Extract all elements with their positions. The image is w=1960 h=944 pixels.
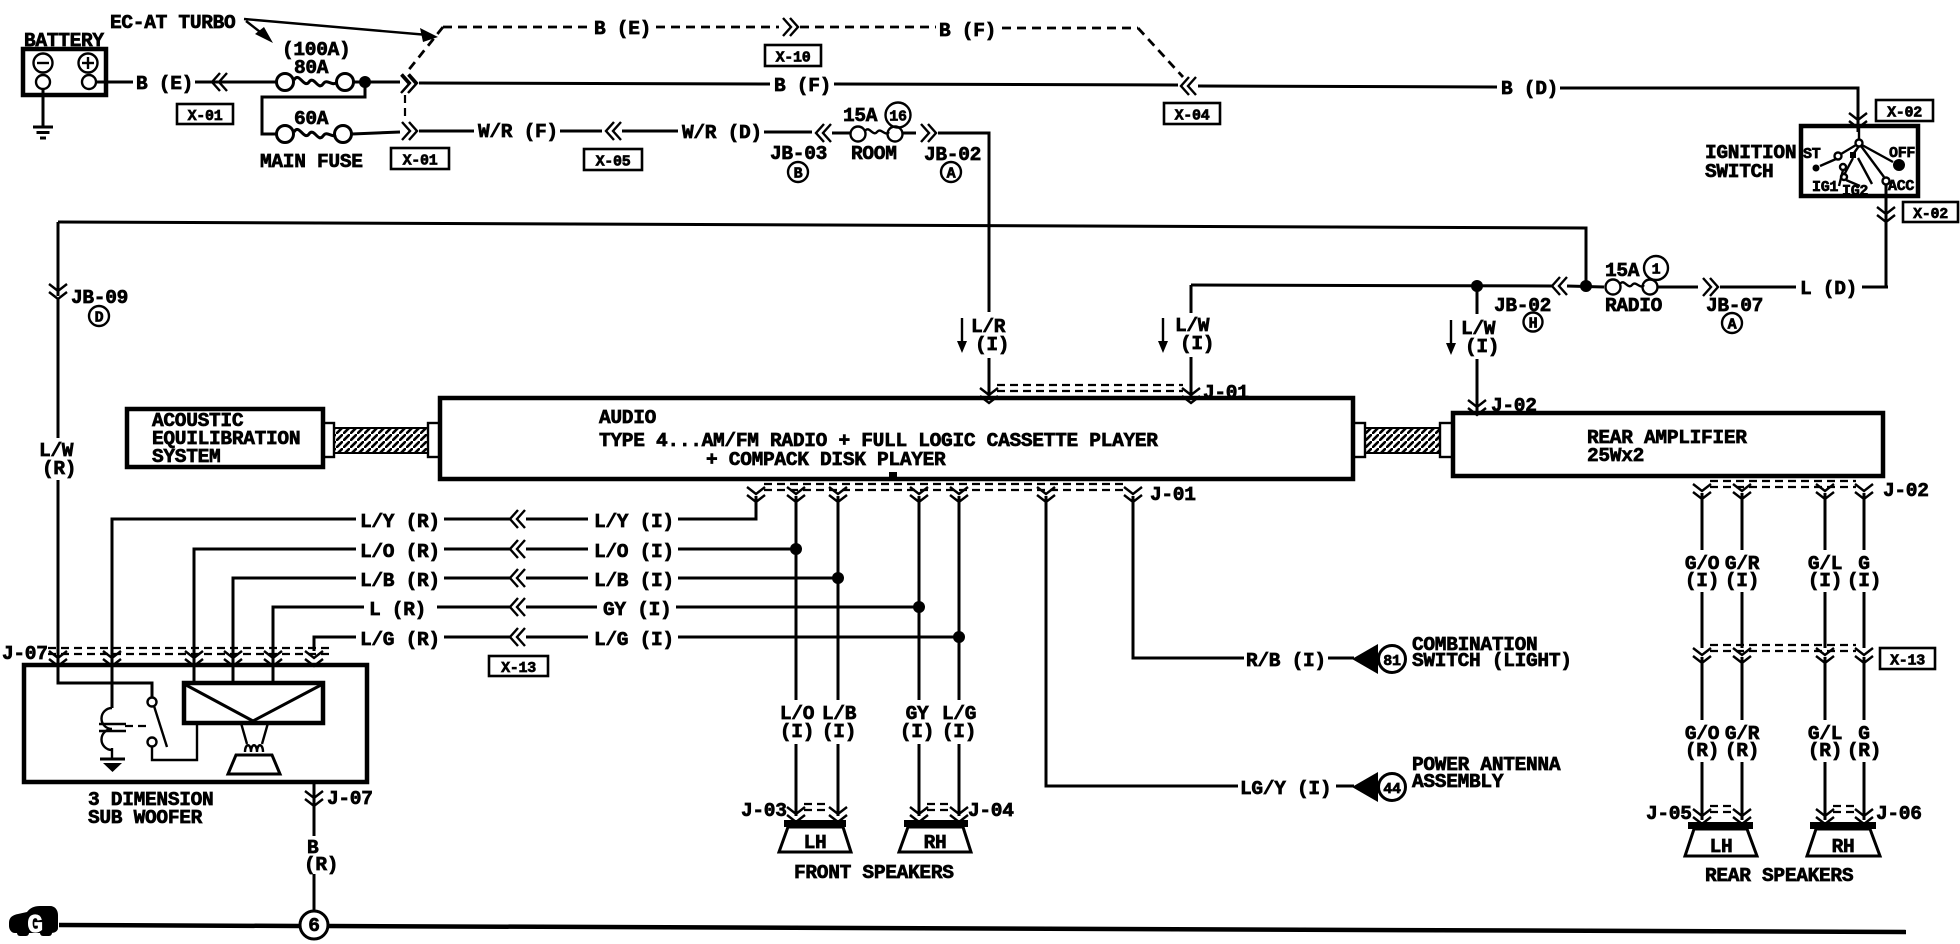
hatched harness left end bar [323,423,334,457]
dashed wire X-10 to B (F) [800,26,936,29]
connector chevron X-05 [606,122,621,140]
wire L/W (I) audio to J-01 [1190,357,1193,400]
connector chevron X-13 L/B [510,569,525,587]
svg-text:JB-02: JB-02 [1494,295,1551,317]
connector J-01 top chevron left [980,388,998,403]
wire L/W (I) rear annotation arrow [1446,320,1456,355]
svg-text:(R): (R) [1685,740,1719,762]
connector chevron X-13 L/G [510,628,525,646]
svg-text:W/R (F): W/R (F) [478,121,558,143]
wire G/R (I) [1741,493,1744,550]
wire W/R (D) to JB-03 [764,131,812,134]
connector label X-01 first [177,104,233,125]
svg-text:J-07: J-07 [327,788,373,810]
terminal circle A of JB-02 [941,162,961,183]
svg-text:(I): (I) [1847,570,1881,592]
wire G/O (R) lower [1701,762,1704,820]
svg-text:X-01: X-01 [188,108,223,125]
combination switch arrow [1352,644,1378,674]
wire B (R) from subwoofer [313,782,316,836]
svg-text:OFF: OFF [1889,145,1915,162]
svg-text:L/O (R): L/O (R) [360,541,440,563]
junction node after 80A fuse [359,76,371,88]
wire to X-01 connector [354,81,400,84]
connector J-02 bottom chevrons [1693,484,1873,499]
wire L/G (I) vertical [958,496,961,700]
wire L/R (I) to J-01 [988,358,991,400]
junction node L/O [790,543,802,555]
wire 60A to X-01 [352,132,400,134]
connector J-07 bottom chevrons [305,791,323,806]
svg-text:25Wx2: 25Wx2 [1587,445,1644,467]
wire label G/R (I) [1725,553,1760,592]
svg-text:RH: RH [924,832,947,854]
wire W/R (F) to X-05 [560,130,602,133]
svg-text:IG2: IG2 [1842,183,1868,200]
wire rear amp feed down [1476,286,1479,314]
svg-text:ROOM: ROOM [851,143,897,165]
wire R/B (I) [1133,496,1244,658]
svg-text:A: A [947,166,956,183]
svg-text:80A: 80A [294,57,329,79]
svg-text:L/B (I): L/B (I) [594,570,674,592]
ignition switch internals [1813,128,1906,186]
wire GY (I) vertical [918,496,921,700]
svg-text:15A: 15A [1605,260,1640,282]
subwoofer box [24,665,367,782]
connector J-01 bottom dashed line [764,484,1125,490]
svg-text:L/G (R): L/G (R) [360,629,440,651]
battery box [23,49,106,95]
svg-text:X-02: X-02 [1913,206,1948,223]
wire label G (I) [1847,553,1881,592]
svg-text:J-03: J-03 [741,800,787,822]
svg-text:(I): (I) [822,721,856,743]
svg-text:(R): (R) [42,458,76,480]
connector J-07 dashed line [48,648,330,654]
wire L (R) to subwoofer [273,607,364,683]
wire to subwoofer switch [58,665,152,698]
svg-text:W/R (D): W/R (D) [682,122,762,144]
connector label X-02 upper [1876,100,1933,122]
main fuse 80A [277,74,354,91]
ground wire from battery [42,89,45,127]
wire L/O (R) right [444,548,510,551]
wire L/B (I) vertical [837,496,840,700]
svg-text:X-05: X-05 [596,154,631,171]
wire L/B (R) right [444,577,510,580]
connector label X-10 [765,45,821,67]
wire label G/R (R) [1725,723,1760,762]
svg-text:L (R): L (R) [369,599,426,621]
svg-text:(I): (I) [942,721,976,743]
label 3 dimension sub woofer [88,789,213,829]
svg-text:B (D): B (D) [1501,78,1558,100]
subwoofer voice coil [241,723,268,752]
svg-text:1: 1 [1652,262,1661,279]
wire label G (R) [1847,723,1881,762]
wire ACC down [1885,184,1888,287]
svg-text:(I): (I) [1180,333,1214,355]
wire GY (I) to X-13 [526,606,597,609]
svg-text:L/O (I): L/O (I) [594,541,674,563]
wire L/G (I) to X-13 [526,636,588,639]
front speaker LH [779,820,851,854]
svg-text:ST: ST [1803,146,1821,163]
connector J-01 top chevron right [1182,388,1200,403]
subwoofer magnet [228,755,280,774]
connector chevron on B (E) [212,73,227,91]
dashed EC-AT wire left diagonal [407,27,443,72]
long feed wire across page [58,222,1586,286]
fuse number circle 16 [886,103,911,128]
wire label G/O (R) [1685,723,1720,762]
dashed EC-AT through X-01 [401,75,416,120]
svg-text:ASSEMBLY: ASSEMBLY [1412,771,1504,793]
battery terminal negative [36,75,50,89]
junction node GY [913,601,925,613]
connector chevron JB-07 [1658,278,1718,296]
wire label L/W (I) rear [1461,318,1499,358]
svg-text:J-01: J-01 [1150,484,1196,506]
svg-text:44: 44 [1383,781,1401,798]
svg-text:X-13: X-13 [501,660,536,677]
label power antenna assembly [1412,754,1561,793]
wire label L/W (R) [39,440,76,480]
svg-text:15A: 15A [843,105,878,127]
connector X-13 right chevrons [1693,648,1873,663]
svg-text:L/B (R): L/B (R) [360,570,440,592]
wire battery to B (E) [96,81,133,84]
power antenna circle 44 [1379,774,1406,801]
dashed wire B (E) to X-10 [656,26,779,29]
svg-text:60A: 60A [294,108,329,130]
wire L/W (I) rear to J-02 [1476,359,1479,412]
body ground symbol car [9,906,58,940]
wire B (E) to fuse [195,81,276,84]
wire LG/Y (I) [1046,496,1238,786]
connector chevron JB-03 [816,124,831,142]
battery minus symbol [34,54,53,73]
acoustic box label [152,410,300,468]
connector label X-02 lower [1903,202,1958,223]
wire L/G (R) right [444,636,510,639]
svg-text:LH: LH [1710,836,1733,858]
terminal circle B of JB-03 [788,162,808,183]
svg-text:(I): (I) [780,721,814,743]
front speaker RH [899,820,971,854]
hatched harness right end bar [1353,423,1365,457]
rear amplifier label [1587,427,1747,467]
wire L/R (I) annotation arrow [957,318,967,353]
wire L/Y (I) to X-13 [526,518,588,521]
svg-text:+ COMPACK DISK PLAYER: + COMPACK DISK PLAYER [706,449,946,471]
junction node L/G [953,631,965,643]
wire LG/Y (I) to arrow [1336,785,1354,788]
svg-text:RH: RH [1832,836,1855,858]
power antenna arrow [1352,772,1378,802]
svg-text:X-13: X-13 [1890,653,1925,670]
wire G (R) [1863,657,1866,720]
junction node rear amp feed [1471,280,1483,292]
hatched harness left band [334,428,428,453]
wire L/O (I) to X-13 [526,548,588,551]
svg-text:(R): (R) [304,854,338,876]
arrow to 100A fuse [246,21,273,43]
connector X-02 upper chevrons [1849,113,1867,128]
connector J-01 bottom chevrons [747,487,1142,502]
wire G/R (R) lower [1741,762,1744,820]
wire radio feed horizontal [1191,285,1552,286]
svg-text:MAIN FUSE: MAIN FUSE [260,151,363,173]
terminal circle A of JB-07 [1722,313,1742,334]
wire G/O (R) [1701,657,1704,720]
label combination switch [1412,634,1572,672]
wire R/B (I) to arrow [1328,657,1354,660]
wire B (D) to ignition switch [1560,88,1858,132]
rear speaker RH [1807,822,1880,858]
svg-text:SWITCH: SWITCH [1705,161,1773,183]
rear speaker LH [1685,822,1757,858]
wire L/W (R) lower [57,480,60,665]
svg-text:(R): (R) [1847,740,1881,762]
connector J-05 chevrons [1693,806,1751,824]
junction node to long feed [1567,280,1604,292]
subwoofer switch [148,698,198,761]
connector J-01 top dashed line [997,385,1183,391]
rear amplifier box [1453,413,1883,476]
svg-text:RADIO: RADIO [1605,295,1663,317]
connector label X-01 second [391,148,449,170]
ignition switch label [1705,142,1796,183]
subwoofer relay coil [99,708,126,750]
svg-text:H: H [1529,316,1538,333]
dashed wire B (E) top [443,26,590,29]
svg-text:(R): (R) [1808,740,1842,762]
wire X-04 to B (D) [1198,86,1497,87]
fuse 15A ROOM [832,127,903,142]
connector X-13 right dashed line [1710,645,1856,651]
wire L/Y (R) right [444,518,510,521]
wire label G/O (I) [1685,553,1720,592]
ground node circle 6 [300,911,328,939]
connector label X-13 left [489,656,548,677]
dashed link coil to switch [125,725,147,727]
wire L (D) to ACC [1862,286,1888,289]
svg-text:B (E): B (E) [594,18,651,40]
ground symbol [33,127,53,138]
connector chevron X-13 GY [510,598,525,616]
battery plus symbol [79,54,98,73]
wire G (I) [1863,493,1866,550]
connector J-07 chevrons [49,651,323,666]
connector JB-09 chevrons [49,222,67,299]
wire GY (I) horizontal [676,606,919,609]
connector label X-13 right [1880,648,1935,670]
wire L/W (R) upper [57,299,60,438]
connector label X-04 [1164,103,1220,125]
connector chevron X-04 [1181,77,1196,95]
svg-text:(I): (I) [1725,570,1759,592]
connector chevron X-01 on B line [402,74,417,92]
svg-text:FRONT SPEAKERS: FRONT SPEAKERS [794,862,954,884]
battery terminal positive [82,75,96,89]
svg-text:J-06: J-06 [1876,803,1922,825]
svg-text:B: B [794,166,803,183]
svg-text:REAR SPEAKERS: REAR SPEAKERS [1705,865,1854,887]
terminal circle D of JB-09 [89,306,109,327]
wire G/O (I) lower [1701,592,1704,648]
svg-text:SUB WOOFER: SUB WOOFER [88,807,203,829]
wire label G/L (I) [1808,553,1842,592]
connector chevron X-13 L/Y [510,510,525,528]
connector J-02 top chevron [1468,400,1486,415]
terminal circle H of JB-02 [1524,313,1543,333]
connector J-03 chevrons [787,804,847,822]
connector J-02 bottom dashed line [1710,481,1856,487]
svg-text:LH: LH [804,832,827,854]
svg-text:(I): (I) [1465,336,1499,358]
hatched harness right right bar [1440,423,1453,457]
arrow to dashed wire [244,19,438,42]
wire L/W (I) audio corner [1190,285,1193,313]
wire label B (R) [304,837,338,876]
svg-text:B (F): B (F) [774,75,831,97]
svg-text:(I): (I) [975,334,1009,356]
wire L/O (I) vertical [795,496,798,700]
svg-text:L/Y (R): L/Y (R) [360,511,440,533]
svg-text:L/Y (I): L/Y (I) [594,511,674,533]
svg-text:A: A [1728,317,1737,334]
front wire label L/G (I) [942,703,976,743]
svg-text:G: G [27,910,42,940]
wire L (R) right [437,606,510,609]
svg-text:16: 16 [889,109,907,126]
svg-text:SWITCH (LIGHT): SWITCH (LIGHT) [1412,650,1572,672]
connector chevron X-10 [783,18,798,36]
front wire label L/O (I) [780,703,815,743]
wire G/L (I) [1824,493,1827,550]
wire L/Y (I) [678,496,756,519]
svg-text:J-04: J-04 [968,800,1014,822]
svg-text:(R): (R) [1725,740,1759,762]
dashed wire B (F) tail [1002,27,1138,30]
wire G/L (R) [1824,657,1827,720]
wire L/G (I) horizontal [678,636,959,639]
wire to W/R (F) [419,130,474,133]
wire G/L (I) lower [1824,592,1827,648]
svg-text:(I): (I) [1685,570,1719,592]
svg-text:L/G (I): L/G (I) [594,629,674,651]
wire L/B (I) horizontal [678,577,838,580]
svg-text:X-02: X-02 [1887,105,1922,122]
branch wire to 60A fuse [262,82,365,134]
audio unit label [599,407,1158,471]
main fuse 60A [277,126,352,143]
wire G/O (I) [1701,493,1704,550]
wire L/O (R) to subwoofer [194,549,356,683]
coil ground symbol [100,748,125,772]
dashed EC-AT right diagonal [1138,28,1183,77]
wire G/L (R) lower [1824,762,1827,820]
wire L/B (I) to X-13 [526,577,588,580]
svg-text:IG1: IG1 [1812,179,1838,196]
connector label X-05 [584,149,642,171]
svg-text:D: D [95,310,104,327]
hatched harness right band [1365,428,1440,453]
wire JB-02 down to L/R [938,133,989,312]
ground bus wire left [59,925,300,926]
wire L/O (I) horizontal [678,548,796,551]
svg-text:81: 81 [1383,653,1401,670]
svg-text:(I): (I) [1808,570,1842,592]
svg-text:X-04: X-04 [1175,108,1210,125]
wire G (I) lower [1863,592,1866,648]
combination switch circle 81 [1379,646,1406,673]
svg-text:GY (I): GY (I) [603,599,671,621]
wire G/R (R) [1741,657,1744,720]
connector chevron X-13 L/O [510,540,525,558]
svg-text:J-05: J-05 [1646,803,1692,825]
svg-text:B (E): B (E) [136,73,193,95]
wire label G/L (R) [1808,723,1842,762]
svg-text:ACC: ACC [1888,178,1914,195]
front wire label L/B (I) [822,703,857,743]
wire B (R) to ground node [313,874,316,911]
wire X-01 to B (F) [419,83,770,84]
connector chevron JB-02 H [1552,277,1567,295]
wire JB-07 to L (D) [1720,286,1796,289]
svg-text:J-07: J-07 [2,643,48,665]
svg-text:SYSTEM: SYSTEM [152,446,220,468]
svg-text:EC-AT TURBO: EC-AT TURBO [110,12,236,34]
connector chevron JB-02 [903,124,936,142]
svg-text:X-10: X-10 [776,50,811,67]
svg-text:J-01: J-01 [1203,382,1249,404]
connector chevron X-01 on W/R line [402,122,417,140]
svg-text:J-02: J-02 [1883,480,1929,502]
svg-text:(I): (I) [900,721,934,743]
svg-text:AUDIO: AUDIO [599,407,657,429]
wire L/W (I) audio annotation arrow [1158,318,1168,353]
wire label L/W (I) audio [1175,315,1214,355]
connector J-06 chevrons [1816,806,1873,824]
wire X-05 to W/R (D) [622,130,678,133]
polarity mark under audio box [889,472,897,478]
svg-text:LG/Y (I): LG/Y (I) [1240,778,1331,800]
front wire label GY (I) [900,703,934,743]
ignition switch box [1801,126,1918,196]
svg-text:X-01: X-01 [403,153,438,170]
audio unit box [440,398,1353,479]
svg-text:L (D): L (D) [1800,278,1857,300]
fuse number circle 1 [1644,256,1668,280]
ground bus wire right [328,926,1906,932]
hatched harness left right bar [428,423,440,457]
wire L/Y (R) to subwoofer [112,519,356,708]
svg-text:B (F): B (F) [939,20,996,42]
svg-text:6: 6 [308,915,319,937]
acoustic equilibration system box [127,409,323,467]
connector J-04 chevrons [910,804,968,822]
wire G/R (I) lower [1741,592,1744,648]
wire L/G (R) to subwoofer [314,637,356,651]
junction node L/B [832,572,844,584]
svg-text:R/B (I): R/B (I) [1246,650,1326,672]
wire B (F) to X-04 [834,84,1178,85]
subwoofer speaker element [184,683,323,723]
fuse 15A RADIO [1606,280,1658,295]
